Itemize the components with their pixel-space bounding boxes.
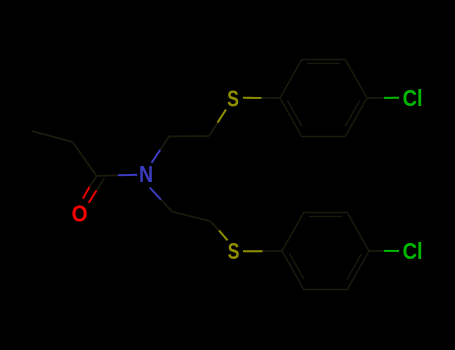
wire: lower CH2-CH2 bond: [172, 212, 210, 221]
benzene ring 1 (upper, 4-chlorophenyl): [280, 60, 367, 137]
wire: lower CH2-S bond sulfur half: [219, 231, 228, 241]
wire: lower S-ring bond sulfur half: [243, 250, 263, 252]
wire: N-CH2 upper bond carbon half: [160, 136, 169, 149]
wire: C=O double bond line1 oxygen half: [83, 187, 90, 199]
wire: upper S-ring bond carbon half: [262, 97, 281, 99]
wire: upper S-ring bond sulfur half: [243, 97, 262, 99]
wire: C=O double bond line1 carbon half: [90, 176, 97, 187]
wire: N-CH2 lower bond carbon half: [161, 200, 172, 212]
wire: upper CH2-CH2 bond: [169, 135, 209, 137]
wire: N-CH2 lower bond nitrogen half: [150, 188, 161, 200]
wire: CH2-CH3 bond: [32, 131, 73, 142]
benzene ring 2 (lower, 4-chlorophenyl): [282, 213, 369, 290]
svg-text:Cl: Cl: [403, 85, 423, 112]
svg-text:S: S: [227, 86, 239, 112]
wire: lower CH2-S bond carbon half: [210, 221, 219, 231]
svg-text:N: N: [139, 161, 153, 187]
wire: upper ring-Cl bond carbon half: [367, 97, 384, 99]
wire: amide C-N bond nitrogen half: [118, 174, 138, 177]
wire: N-CH2 upper bond nitrogen half: [152, 150, 161, 163]
svg-text:Cl: Cl: [403, 238, 423, 265]
wire: amide C-N bond carbon half: [97, 174, 118, 177]
svg-text:S: S: [228, 239, 240, 265]
wire: upper CH2-S bond carbon half: [209, 123, 218, 136]
svg-text:O: O: [72, 200, 88, 226]
wire: C=O double bond line2 carbon half: [97, 178, 105, 190]
wire: lower ring-Cl bond chlorine half: [384, 250, 399, 252]
wire: upper CH2-S bond sulfur half: [218, 110, 226, 123]
wire: acyl C-CH2 bond: [73, 142, 97, 176]
wire: C=O double bond line2 oxygen half: [89, 191, 97, 203]
wire: upper ring-Cl bond chlorine half: [384, 97, 399, 99]
wire: lower ring-Cl bond carbon half: [369, 250, 384, 252]
wire: lower S-ring bond carbon half: [263, 250, 283, 252]
